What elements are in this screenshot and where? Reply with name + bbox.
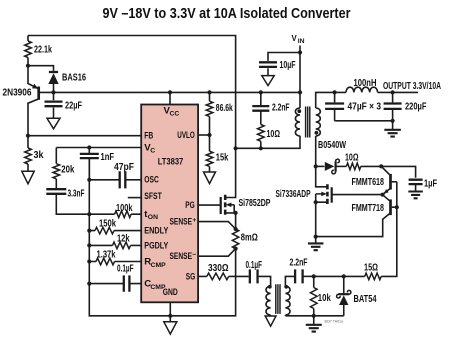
node gate drive / emitters <box>380 193 384 197</box>
svg-text:2.2nF: 2.2nF <box>272 103 290 114</box>
node VIN / primary top <box>298 90 302 94</box>
svg-text:22µF: 22µF <box>65 101 82 112</box>
transistor FMMT618 emitter arrow <box>384 189 389 194</box>
wire 220uF top lead <box>392 92 394 102</box>
svg-text:V: V <box>292 34 298 43</box>
svg-text:ENDLY: ENDLY <box>144 226 168 237</box>
capacitor 22uF <box>45 102 63 107</box>
transistor FMMT618 base bar <box>389 174 392 190</box>
resistor 12k <box>113 242 131 249</box>
svg-text:IN: IN <box>298 38 305 45</box>
wire 10 ohm to 1uF corner <box>361 166 416 177</box>
svg-text:8mΩ: 8mΩ <box>241 233 258 244</box>
svg-text:1nF: 1nF <box>101 152 115 163</box>
wire T2 secondary bottom lead <box>284 314 286 317</box>
transistor Si7852DP body arrowhead <box>226 203 232 208</box>
wire 22.1k lead segments <box>27 36 29 66</box>
wire OSC line right <box>126 179 141 181</box>
wire 220uF bottom lead <box>392 110 394 121</box>
T2 primary phase dot <box>268 285 272 289</box>
resistor 15k <box>206 151 213 166</box>
wire 20k branch top <box>55 148 57 164</box>
transformer T1 primary winding <box>295 108 300 136</box>
svg-text:10k: 10k <box>318 293 331 304</box>
diode BAT54 schottky hooks <box>337 290 351 298</box>
resistor 150k <box>95 227 114 234</box>
svg-text:10µF: 10µF <box>280 60 296 71</box>
node PGDLY / bus <box>87 243 91 247</box>
svg-text:PGDLY: PGDLY <box>144 241 168 252</box>
capacitor 47pF <box>120 171 126 188</box>
svg-text:330Ω: 330Ω <box>208 263 229 274</box>
node 220uF top / output <box>391 90 395 94</box>
svg-text:Si7852DP: Si7852DP <box>239 198 271 209</box>
ground below 15k <box>204 172 216 184</box>
wire tON line <box>89 213 141 215</box>
svg-text:BAS16: BAS16 <box>62 73 86 84</box>
wire 22uF top lead <box>53 92 55 100</box>
wire T1 primary top lead <box>299 92 301 108</box>
wire output cap bottom rail <box>335 120 393 122</box>
capacitor 0.1uF (Ccmp) <box>124 275 130 291</box>
transistor Q1 2N3906 base bar <box>37 87 40 100</box>
wire 15k bottom lead <box>209 166 211 172</box>
diode BAS16 cathode bar <box>49 71 58 73</box>
resistor 22.1k <box>25 41 32 58</box>
T2 secondary phase dot <box>284 285 288 289</box>
node BAS16 anode / 22uF <box>51 90 55 94</box>
svg-text:FMMT618: FMMT618 <box>352 177 385 188</box>
wire BAT54 cathode lead <box>343 276 345 294</box>
ground below 10uF <box>262 76 274 86</box>
svg-text:10Ω: 10Ω <box>345 153 359 164</box>
ground output (bars) <box>384 130 401 137</box>
wire UVLO pin line <box>198 134 209 136</box>
node tON / bus <box>87 212 91 216</box>
node B0540W anode tap <box>314 164 318 168</box>
svg-text:20k: 20k <box>61 165 74 176</box>
capacitor 1uF <box>409 180 423 184</box>
wire 1nF top lead <box>88 148 90 154</box>
resistor 10k <box>310 288 317 309</box>
node GND rail <box>168 314 172 318</box>
wire 10k bottom lead <box>313 309 315 316</box>
svg-text:100nH: 100nH <box>354 78 377 89</box>
wire BAT54 anode lead <box>343 305 345 316</box>
resistor 330 ohm <box>207 273 229 280</box>
wire 1nF bottom / bus upper <box>88 158 90 180</box>
svg-text:22.1k: 22.1k <box>34 45 52 56</box>
ground below 3k <box>22 171 34 184</box>
svg-text:15Ω: 15Ω <box>364 263 378 274</box>
wire Si7336ADP source lead <box>316 202 328 236</box>
wire 86.6k top lead <box>209 92 211 101</box>
svg-text:SENSE: SENSE <box>170 216 193 227</box>
wire FMMT718 emitter diagonal <box>383 195 391 202</box>
diode B0540W triangle <box>325 162 335 171</box>
wire T2 secondary top lead <box>285 276 295 286</box>
wire 10uF branch <box>268 53 300 61</box>
transformer T2 core <box>276 284 280 314</box>
node drain line / snubber line <box>234 146 238 150</box>
wire BAS16 anode to VCC line <box>53 84 55 92</box>
ground below 1uF (bars) <box>408 192 423 199</box>
svg-text:15k: 15k <box>216 153 229 164</box>
wire RCMP line <box>89 261 141 263</box>
wire 15 ohm left lead <box>344 275 365 277</box>
ground Si7336ADP source (bars) <box>308 243 324 250</box>
svg-text:CC: CC <box>170 111 180 118</box>
svg-text:150k: 150k <box>99 219 116 230</box>
svg-text:47pF: 47pF <box>114 162 134 173</box>
svg-text:BAT54: BAT54 <box>354 294 377 305</box>
wire PGDLY line <box>89 244 141 246</box>
node 47uF top <box>333 90 337 94</box>
transistor Si7852DP body arrow <box>231 204 235 206</box>
wire 86.6k to UVLO node <box>209 116 211 151</box>
wire T2 primary ground lead <box>270 315 272 316</box>
wire left ground bus and bottom rail <box>89 158 235 316</box>
wire T1 secondary top to output <box>316 92 346 108</box>
node 10k top <box>312 274 316 278</box>
capacitor 10uF <box>259 62 277 67</box>
svg-text:C: C <box>150 147 155 154</box>
svg-text:0.1µF: 0.1µF <box>117 264 134 275</box>
wire ground stub below rail <box>169 316 171 322</box>
wire SENSE+ line <box>198 222 236 229</box>
node 86.6k top <box>207 90 211 94</box>
wire snubber mid lead <box>260 111 262 125</box>
svg-text:SG: SG <box>186 271 196 282</box>
wire Si7852DP body tie <box>233 205 235 213</box>
svg-text:GND: GND <box>163 287 178 298</box>
ground secondary (bars) <box>306 325 322 332</box>
wire output line right <box>378 91 418 93</box>
wire snubber top lead <box>260 92 262 106</box>
T1 primary phase dot <box>297 109 301 113</box>
wire FMMT618 collector diagonal <box>381 166 390 175</box>
wire VCC rail <box>40 91 300 93</box>
node secondary bottom ground <box>312 314 316 318</box>
resistor 100k <box>115 211 132 218</box>
transistor Si7852DP gate bar <box>220 197 222 214</box>
resistor 8mOhm <box>232 229 238 249</box>
wire CCMP line <box>89 283 141 285</box>
wire FMMT base bus <box>381 182 397 277</box>
transistor Si7336ADP body arrowhead <box>321 192 327 197</box>
wire B0540W cathode to 10 ohm <box>336 165 346 167</box>
svg-text:86.6k: 86.6k <box>216 103 233 114</box>
wire Si7852DP source lead <box>225 213 235 229</box>
wire 3k top lead <box>27 136 29 148</box>
svg-text:47µF × 3: 47µF × 3 <box>348 102 382 113</box>
node output ground <box>391 119 395 123</box>
transformer T2 primary winding <box>266 286 271 315</box>
node BAT54 top <box>342 274 346 278</box>
wire 20k to 3.3nF <box>55 179 57 189</box>
node UVLO divider <box>207 133 211 137</box>
svg-text:10Ω: 10Ω <box>267 129 281 140</box>
capacitor 220uF <box>384 104 402 109</box>
svg-text:Si7336ADP: Si7336ADP <box>276 189 311 200</box>
svg-text:CMP: CMP <box>151 262 167 269</box>
resistor 86.6k <box>206 101 213 116</box>
svg-text:2.2nF: 2.2nF <box>290 257 308 268</box>
svg-text:−: − <box>192 251 196 258</box>
op-amp U1 LT3837 body <box>141 105 198 303</box>
diode B0540W schottky hooks <box>332 159 340 174</box>
transistor Si7336ADP body arrow <box>316 193 322 195</box>
node FB / 3k / 2N3906 collector <box>26 134 30 138</box>
node RCMP / bus <box>87 259 91 263</box>
wire VC line <box>56 147 141 149</box>
wire 2.2nF to 10k node <box>303 275 314 277</box>
svg-text:3.3nF: 3.3nF <box>68 189 85 200</box>
wire switch node line <box>236 136 300 149</box>
wire 10k node to BAT54 node <box>314 275 344 277</box>
svg-text:B0540W: B0540W <box>318 140 346 151</box>
wire 10uF bottom lead <box>267 68 269 75</box>
diode BAT54 triangle <box>339 295 348 305</box>
svg-text:OSC: OSC <box>144 175 159 186</box>
svg-text:SFST: SFST <box>144 191 162 202</box>
node snubber top <box>259 90 263 94</box>
svg-text:1.37k: 1.37k <box>97 250 116 261</box>
wire secondary ground stub <box>313 316 315 325</box>
wire Si7336ADP body tie <box>315 194 317 202</box>
T1 secondary phase dot <box>315 131 319 135</box>
svg-text:UVLO: UVLO <box>177 130 195 141</box>
wire 2N3906 collector lead <box>28 99 39 136</box>
transistor Q1 2N3906 emitter arrow <box>32 84 38 89</box>
wire source ground stub <box>315 237 317 243</box>
transistor FMMT718 base bar <box>389 199 392 215</box>
wire B0540W anode lead <box>316 165 325 167</box>
transistor Si7852DP channel dashes <box>224 195 227 215</box>
svg-text:ON: ON <box>148 214 158 221</box>
wire 47uF bottom lead <box>334 110 336 121</box>
diode BAS16 triangle <box>48 73 58 84</box>
node FMMT618 collector <box>379 164 383 168</box>
node Si7852DP source <box>234 211 238 215</box>
svg-text:0.1µF: 0.1µF <box>246 260 263 271</box>
svg-text:1µF: 1µF <box>424 178 437 189</box>
svg-text:12k: 12k <box>117 234 130 245</box>
svg-text:OUTPUT 3.3V/10A: OUTPUT 3.3V/10A <box>383 81 441 92</box>
wire top-left rail from 22.1k to Si7852DP drain <box>28 36 236 198</box>
wire SENSE- line <box>198 249 236 257</box>
transformer T2 secondary winding <box>285 286 290 315</box>
svg-text:LT3837: LT3837 <box>158 156 184 167</box>
wire FB line <box>28 135 141 137</box>
wire FMMT718 collector return <box>316 213 390 236</box>
transformer T1 core <box>306 107 310 138</box>
node source ground <box>314 235 318 239</box>
node OSC / bus <box>87 178 91 182</box>
capacitor 0.1uF coupling <box>250 269 258 283</box>
inductor 100nH <box>346 87 378 92</box>
resistor 3k <box>25 148 32 164</box>
wire VIN vertical <box>299 46 301 93</box>
node Si7336ADP source <box>314 200 318 204</box>
svg-text:FB: FB <box>144 130 153 141</box>
transistor FMMT718 emitter arrow <box>384 196 389 201</box>
wire snubber bottom lead <box>260 141 262 148</box>
svg-text:2N3906: 2N3906 <box>3 87 32 98</box>
wire secondary bottom rail <box>285 315 343 317</box>
wire PG to gate <box>198 204 221 206</box>
svg-text:+: + <box>192 217 196 224</box>
svg-text:PG: PG <box>185 200 195 211</box>
svg-text:FMMT718: FMMT718 <box>352 203 385 214</box>
node sense- tap <box>234 247 238 251</box>
wire FMMT618 emitter diagonal <box>384 189 391 194</box>
svg-text:9V –18V to 3.3V at 10A Isolate: 9V –18V to 3.3V at 10A Isolated Converte… <box>103 6 351 22</box>
svg-text:3837 TA01a: 3837 TA01a <box>324 318 344 323</box>
node sense+ tap <box>234 227 238 231</box>
node snubber bottom <box>259 146 263 150</box>
node 22.1k / 2N3906 emitter / BAS16 <box>26 64 30 68</box>
wire FMMT718 base lead <box>392 206 397 208</box>
wire 10k top lead <box>313 276 315 287</box>
node VIN / 10uF tap <box>298 50 302 54</box>
transformer T1 secondary winding <box>316 108 321 136</box>
wire 3.3nF bottom to tON line <box>56 194 89 214</box>
resistor 10 ohm sync <box>346 163 360 170</box>
resistor 10 ohm snubber <box>258 125 265 142</box>
capacitor 3.3nF <box>46 189 66 194</box>
wire VCC stub <box>169 92 171 104</box>
capacitor 2.2nF coupling <box>295 269 303 283</box>
wire 1uF bottom lead <box>415 184 417 191</box>
node FMMT base junction <box>395 205 399 209</box>
capacitor 2.2nF snubber <box>252 106 269 111</box>
diode BAT54 schottky bar <box>338 293 349 295</box>
resistor 1.37k <box>96 258 115 265</box>
ground main GND <box>164 322 177 334</box>
svg-text:SENSE: SENSE <box>170 251 193 262</box>
wire 3k bottom lead <box>27 164 29 171</box>
ground T2 primary <box>265 316 276 326</box>
wire 47uF top lead <box>334 92 336 102</box>
capacitor 47uF x 3 <box>325 104 344 109</box>
svg-text:220µF: 220µF <box>405 102 427 113</box>
capacitor 1nF <box>80 154 99 158</box>
wire ENDLY line <box>89 230 141 232</box>
wire T1 secondary bottom lead <box>316 136 327 187</box>
transistor Si7336ADP channel dashes <box>326 184 329 204</box>
wire 22uF bottom lead <box>53 108 55 119</box>
wire SG line <box>198 276 271 286</box>
transistor Si7336ADP gate bar <box>331 187 333 202</box>
wire Si7336ADP gate lead <box>332 194 383 196</box>
resistor 15 ohm <box>365 273 382 280</box>
node VCC stub <box>168 90 172 94</box>
resistor 20k <box>53 164 60 179</box>
node ENDLY / bus <box>87 229 91 233</box>
diode B0540W schottky bar <box>335 161 337 172</box>
wire GND pin stub <box>169 302 171 315</box>
node VC / 1nF / bus <box>87 145 91 149</box>
node CCMP / bus <box>87 282 91 286</box>
wire output ground stub <box>392 121 394 130</box>
ground below 22uF <box>47 118 60 129</box>
svg-text:100k: 100k <box>116 203 133 214</box>
wire 2N3906 emitter lead <box>28 66 38 89</box>
wire SFST stub <box>128 197 141 199</box>
svg-text:3k: 3k <box>34 150 44 161</box>
wire OSC line left <box>89 179 119 181</box>
wire FMMT618 base lead <box>392 181 397 183</box>
wire node to BAS16 cathode <box>28 66 54 71</box>
